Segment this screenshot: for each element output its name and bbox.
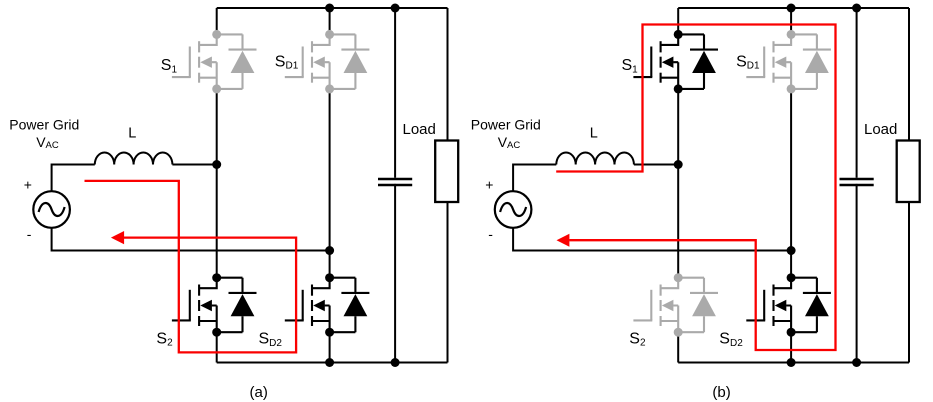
- svg-text:(b): (b): [712, 384, 730, 401]
- svg-text:S2: S2: [629, 331, 646, 349]
- svg-text:VAC: VAC: [498, 134, 521, 151]
- svg-text:+: +: [485, 177, 493, 193]
- svg-text:S2: S2: [156, 331, 173, 349]
- svg-text:-: -: [488, 226, 493, 242]
- svg-text:L: L: [590, 126, 598, 142]
- svg-text:Load: Load: [403, 121, 436, 138]
- svg-text:SD2: SD2: [719, 331, 743, 349]
- svg-text:+: +: [24, 177, 32, 193]
- svg-text:(a): (a): [250, 384, 268, 401]
- svg-text:SD1: SD1: [275, 53, 299, 71]
- svg-text:-: -: [27, 226, 32, 242]
- svg-text:SD2: SD2: [259, 331, 283, 349]
- svg-text:Power Grid: Power Grid: [9, 117, 79, 133]
- svg-text:S1: S1: [622, 57, 639, 75]
- svg-text:Load: Load: [864, 121, 897, 138]
- svg-text:S1: S1: [161, 57, 178, 75]
- svg-text:SD1: SD1: [736, 53, 760, 71]
- svg-text:L: L: [128, 126, 136, 142]
- svg-text:VAC: VAC: [36, 134, 59, 151]
- svg-text:Power Grid: Power Grid: [471, 117, 541, 133]
